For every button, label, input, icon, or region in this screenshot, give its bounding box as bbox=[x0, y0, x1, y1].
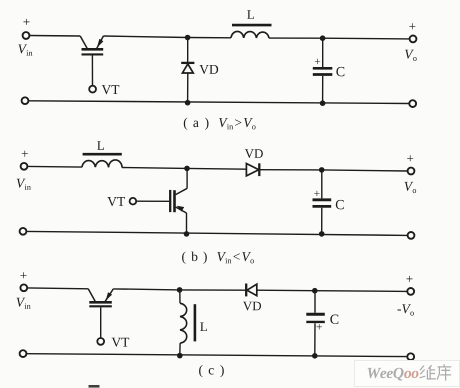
terminal bottom-right (b) bbox=[408, 232, 415, 239]
terminal bottom-left (a) bbox=[22, 97, 29, 104]
label + at output (b) bbox=[407, 155, 413, 161]
node inductor bottom (c) bbox=[177, 353, 183, 359]
capacitor C (a) bbox=[313, 38, 333, 103]
terminal Vo+ (a) bbox=[410, 36, 417, 43]
node inductor top (c) bbox=[177, 287, 183, 293]
label -Vo (c) bbox=[398, 304, 414, 315]
wire top rail mid (c) bbox=[113, 289, 179, 290]
label VT (c) bbox=[112, 338, 130, 347]
wire top rail to inductor (a) bbox=[188, 37, 231, 39]
node cap bottom (c) bbox=[312, 353, 318, 359]
terminal -Vo+ (c) bbox=[407, 288, 414, 295]
wire top rail to cap (a) bbox=[269, 37, 323, 39]
label C (b) bbox=[336, 200, 344, 209]
label + at output (c) bbox=[406, 276, 412, 282]
watermark box bbox=[355, 361, 460, 387]
label L (a) bbox=[247, 10, 254, 19]
label Vo (a) bbox=[405, 50, 417, 61]
terminal Vo+ (b) bbox=[408, 168, 415, 175]
caption (b) Vin<Vo bbox=[182, 252, 254, 264]
label + at input (b) bbox=[22, 151, 28, 157]
label + at input (a) bbox=[23, 19, 29, 25]
terminal Vin+ (b) bbox=[21, 163, 28, 170]
diode VD (a) bbox=[181, 38, 194, 103]
bottom-left crop artifact bbox=[89, 385, 100, 388]
label L (b) bbox=[97, 141, 104, 150]
label + of cap (a) bbox=[315, 59, 320, 64]
transistor VT (b) bbox=[130, 168, 188, 234]
caption (c) bbox=[199, 365, 224, 377]
watermark oo bbox=[404, 371, 418, 378]
node diode bottom (a) bbox=[185, 100, 191, 106]
wire top rail right (c) bbox=[315, 290, 408, 293]
node cap bottom (b) bbox=[319, 231, 325, 237]
label Vin (a) bbox=[18, 44, 32, 55]
transistor VT (a) bbox=[80, 36, 103, 93]
node cap top (a) bbox=[320, 35, 326, 41]
label L (c) bbox=[200, 322, 207, 331]
wire top rail right (a) bbox=[323, 37, 410, 40]
label + at input (c) bbox=[20, 272, 26, 278]
label Vin (c) bbox=[17, 298, 31, 309]
terminal bottom-right (a) bbox=[409, 100, 416, 107]
label + of cap (b) bbox=[314, 191, 319, 196]
node switch bottom (b) bbox=[184, 231, 190, 237]
caption (a) Vin>Vo bbox=[184, 118, 256, 130]
label VT (b) bbox=[107, 197, 125, 206]
label Vo (b) bbox=[405, 182, 417, 193]
wire bottom rail (b) bbox=[26, 231, 407, 235]
label + of cap (c) bbox=[317, 324, 322, 329]
wire top rail left (a) bbox=[29, 35, 80, 38]
node cap top (c) bbox=[312, 288, 318, 294]
wire top rail to diode (b) bbox=[187, 167, 246, 170]
watermark char ku bbox=[437, 364, 451, 380]
terminal bottom-left (c) bbox=[20, 350, 27, 357]
terminal bottom-left (b) bbox=[20, 228, 27, 235]
watermark WeeQ bbox=[368, 368, 404, 381]
wire top rail to diode (c) bbox=[180, 289, 246, 291]
inductor L (c) bbox=[180, 290, 195, 356]
label VD (b) bbox=[245, 149, 263, 158]
node cap bottom (a) bbox=[320, 100, 326, 106]
wire top rail right (b) bbox=[322, 170, 408, 171]
inductor L (b) bbox=[82, 154, 122, 167]
wire top rail left (c) bbox=[27, 287, 88, 290]
diode VD (b) bbox=[246, 163, 259, 176]
watermark char wei bbox=[420, 365, 436, 379]
wire top rail mid (b) bbox=[122, 167, 187, 170]
node switch top (b) bbox=[184, 166, 190, 172]
wire top rail to cap (c) bbox=[257, 289, 315, 292]
label + at output (a) bbox=[409, 23, 415, 29]
label C (a) bbox=[336, 67, 344, 76]
inductor L (a) bbox=[231, 25, 272, 38]
label VD (a) bbox=[199, 65, 218, 74]
terminal Vin+ (c) bbox=[20, 284, 27, 291]
transistor VT (c) bbox=[88, 289, 113, 345]
wire bottom rail (c) bbox=[26, 354, 407, 357]
wire top rail mid (a) bbox=[103, 36, 187, 38]
terminal bottom-right (c) bbox=[407, 353, 414, 360]
diode VD (c) bbox=[246, 284, 257, 297]
capacitor C (c) bbox=[306, 291, 325, 356]
capacitor C (b) bbox=[313, 170, 332, 234]
label VD (c) bbox=[243, 302, 261, 311]
node switch-diode (a) bbox=[185, 35, 191, 41]
terminal Vin+ (a) bbox=[23, 32, 30, 39]
wire bottom rail (a) bbox=[28, 101, 409, 104]
label C (c) bbox=[330, 315, 338, 324]
label Vin (b) bbox=[17, 179, 31, 190]
node cap top (b) bbox=[319, 167, 325, 173]
wire top rail left (b) bbox=[27, 165, 82, 168]
wire top rail to cap (b) bbox=[259, 169, 321, 171]
label VT (a) bbox=[102, 85, 120, 94]
